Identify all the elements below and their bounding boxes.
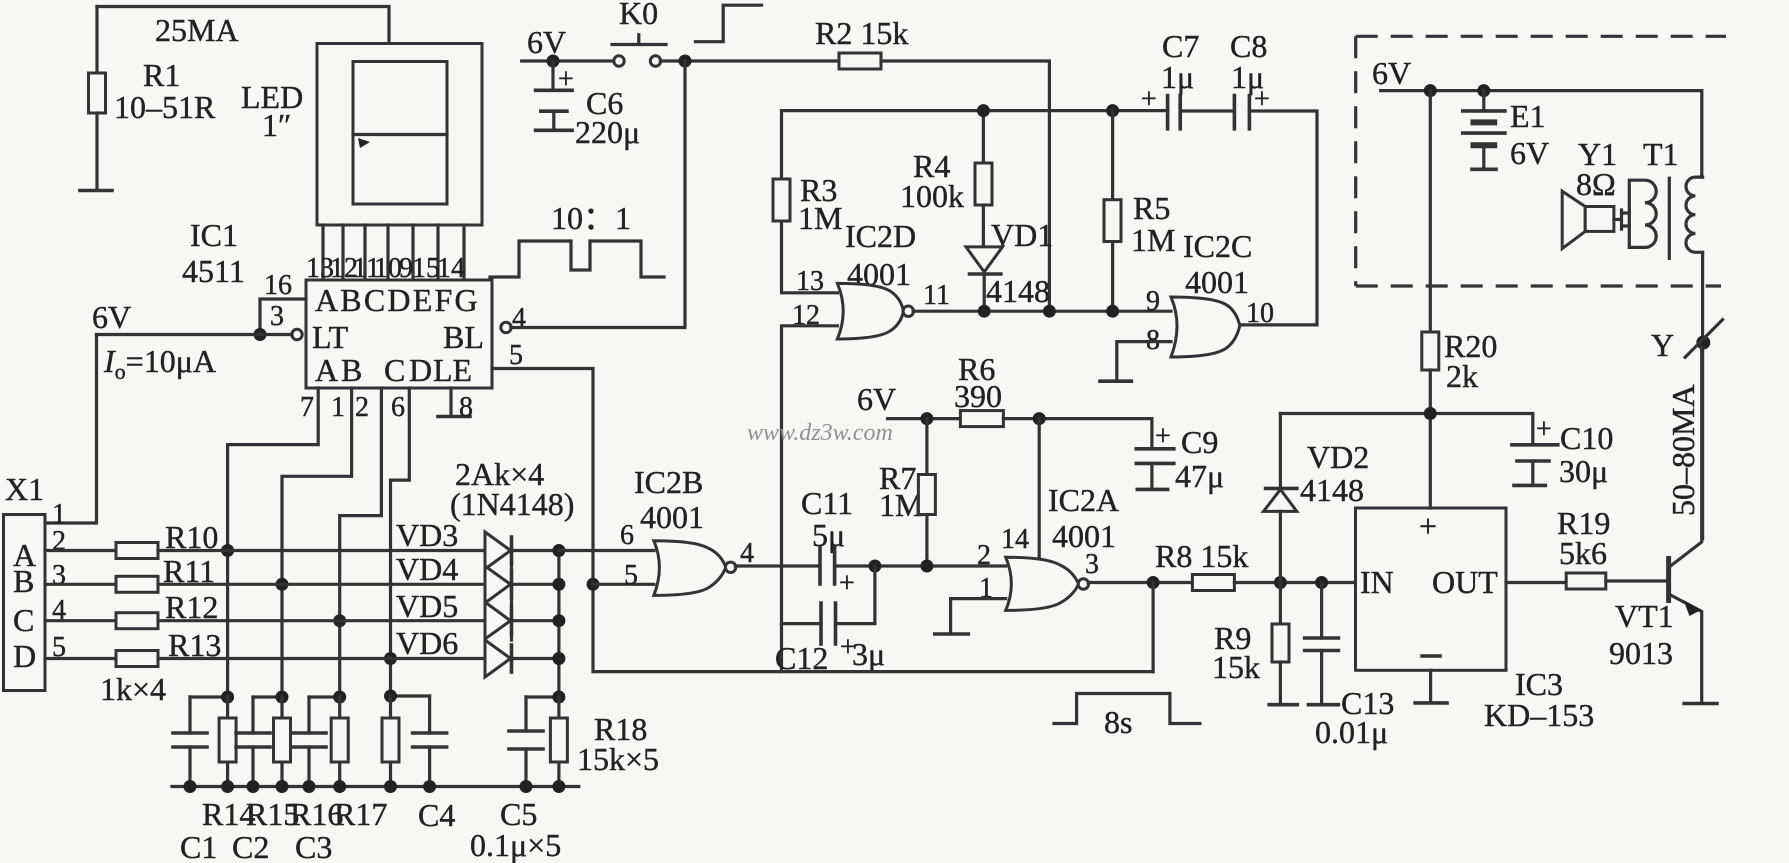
svg-text:4001: 4001: [640, 499, 704, 535]
diode VD3: [485, 532, 511, 569]
capacitor C12 plates: [821, 603, 836, 644]
wire 6V to K0: [522, 59, 615, 62]
IC1 pin 6 stub and wire to R13 net: [391, 388, 410, 696]
svg-text:9: 9: [1146, 286, 1160, 317]
svg-text:220μ: 220μ: [575, 114, 640, 150]
resistor R12: [116, 613, 158, 629]
junction C13 / IN line: [1315, 576, 1328, 589]
ground bar below C6: [536, 129, 573, 133]
svg-text:4: 4: [512, 303, 526, 334]
rail junction R17: [384, 780, 397, 793]
resistor R15: [280, 697, 283, 787]
wire output node down to feedback line: [1151, 583, 1154, 672]
svg-text:VT1: VT1: [1615, 598, 1674, 634]
svg-text:1M: 1M: [879, 487, 923, 523]
svg-text:6V: 6V: [1510, 135, 1549, 171]
rail junction R18: [552, 780, 565, 793]
transistor VT1 base bar: [1666, 556, 1671, 603]
transformer T1 primary winding: [1629, 180, 1656, 247]
svg-text:3: 3: [270, 301, 284, 332]
wire between C7 and C8: [1180, 109, 1234, 112]
junction pin16/6V: [254, 328, 267, 341]
wire row D to VD6: [158, 657, 485, 660]
node C3/R16 top: [309, 695, 340, 698]
svg-text:8: 8: [459, 392, 473, 423]
svg-text:C10: C10: [1560, 420, 1613, 456]
ground bar IC2A pin 1: [935, 632, 969, 636]
wire R7 top lead: [925, 419, 928, 475]
svg-text:10：1: 10：1: [551, 200, 631, 236]
svg-text:25MA: 25MA: [155, 12, 239, 48]
svg-text:C9: C9: [1181, 424, 1218, 460]
junction LE line / IC2B input5: [587, 578, 600, 591]
svg-text:1k×4: 1k×4: [100, 671, 166, 707]
ground bar below KD-153: [1415, 701, 1447, 705]
capacitor C3: [307, 697, 310, 787]
junction R7 / 6V rail: [920, 412, 933, 425]
rail junction C5: [520, 780, 533, 793]
switch contact Y dot: [1696, 336, 1710, 350]
svg-text:+: +: [1419, 508, 1437, 544]
wire VD2 node line to C10: [1280, 414, 1532, 445]
svg-text:LE: LE: [433, 352, 472, 388]
wire R20 branch from 6V through enclosure: [1429, 91, 1432, 332]
KD-153 ground stub: [1429, 670, 1432, 701]
junction bus/VD5: [552, 614, 565, 627]
svg-text:+: +: [839, 568, 855, 599]
svg-text:T1: T1: [1643, 136, 1679, 172]
wire pin 14 power branch: [1038, 419, 1041, 563]
ground bar below R9: [1269, 703, 1297, 707]
IC2A output bubble: [1078, 579, 1088, 589]
resistor R18: [557, 697, 560, 787]
wire secondary bottom down through Y contact: [1701, 252, 1704, 538]
waveform 10:1: [490, 241, 664, 277]
svg-text:50–80MA: 50–80MA: [1665, 384, 1701, 516]
resistor R19: [1566, 573, 1606, 589]
svg-text:11: 11: [923, 280, 950, 311]
connector X1 body: [4, 515, 46, 691]
svg-text:6: 6: [620, 520, 634, 551]
junction R7 / input2 line: [920, 560, 933, 573]
svg-text:VD1: VD1: [991, 217, 1053, 253]
svg-text:2: 2: [355, 392, 369, 423]
svg-text:VD2: VD2: [1307, 439, 1369, 475]
svg-text:9013: 9013: [1609, 635, 1673, 671]
switch K0 actuator bar: [612, 35, 666, 45]
wire R20 bottom lead: [1429, 370, 1432, 508]
capacitor C10 bottom lead: [1531, 461, 1534, 484]
svg-text:30μ: 30μ: [1559, 453, 1608, 489]
wire R2 to IC2C input branch: [881, 61, 1049, 311]
wire BL pin4 to K0 branch vertical: [511, 326, 684, 329]
svg-text:6V: 6V: [92, 299, 131, 335]
svg-text:www.dz3w.com: www.dz3w.com: [747, 420, 893, 446]
ground bar pin 8: [438, 415, 470, 419]
wire VD5 cathode to bus: [512, 619, 559, 622]
wire VD4 cathode to bus: [512, 583, 559, 586]
svg-text:R8 15k: R8 15k: [1155, 538, 1248, 574]
svg-text:VD4: VD4: [396, 551, 458, 587]
svg-text:VD6: VD6: [396, 625, 458, 661]
KD-153 minus mark: [1422, 654, 1440, 658]
battery E1 plates: [1463, 109, 1505, 113]
svg-text:4511: 4511: [182, 253, 245, 289]
svg-text:2: 2: [52, 526, 66, 557]
capacitor C1: [188, 697, 191, 787]
svg-text:VD5: VD5: [396, 588, 458, 624]
svg-text:100k: 100k: [900, 178, 964, 214]
svg-text:2k: 2k: [1446, 358, 1478, 394]
svg-text:R5: R5: [1133, 190, 1170, 226]
wire 6V rail to R6: [888, 417, 961, 420]
battery E1 bottom lead and end bar: [1482, 145, 1485, 168]
junction pin14 branch / 6V rail: [1033, 412, 1046, 425]
resistor R2: [839, 53, 881, 69]
svg-text:C4: C4: [418, 797, 455, 833]
capacitor C4: [428, 696, 431, 787]
svg-text:R17: R17: [334, 796, 387, 832]
LED display inner window: [353, 62, 447, 205]
junction R2 branch / line 11: [1043, 305, 1056, 318]
svg-text:BL: BL: [443, 319, 484, 355]
capacitor C9 plates: [1136, 449, 1174, 464]
svg-text:6V: 6V: [1372, 55, 1411, 91]
wire C13 bottom lead: [1320, 651, 1323, 704]
wire VD3 row to IC2B input 6: [559, 549, 654, 552]
junction K0 / BL branch: [679, 55, 692, 68]
svg-text:1M: 1M: [1131, 222, 1175, 258]
junction R20 / node line: [1424, 407, 1437, 420]
wire R3 branch down to IC2D pin13: [782, 111, 838, 293]
wire 6V vertical down to X1 pin1: [47, 335, 97, 524]
ground bar IC2C pin 8: [1100, 379, 1131, 383]
resistor R7: [918, 475, 935, 515]
junction bus/VD3: [552, 544, 565, 557]
junction bus/VD4: [552, 578, 565, 591]
junction R20 branch / 6V: [1424, 84, 1437, 97]
diode VD1: [966, 247, 1003, 272]
wire R6 to C9 corner: [1003, 419, 1152, 449]
svg-text:10: 10: [1246, 298, 1274, 329]
svg-text:1: 1: [331, 392, 345, 423]
emitter end bar: [1684, 702, 1717, 706]
svg-text:+: +: [1536, 414, 1552, 445]
wire row B to R11: [45, 583, 116, 586]
svg-text:IC1: IC1: [190, 217, 238, 253]
wire R7 bottom lead: [925, 515, 928, 567]
svg-text:5k6: 5k6: [1559, 535, 1607, 571]
dashed enclosure top: [1356, 35, 1726, 38]
svg-text:10–51R: 10–51R: [114, 89, 216, 125]
svg-text:IC2D: IC2D: [845, 218, 916, 254]
svg-text:0.1μ×5: 0.1μ×5: [470, 827, 561, 863]
RC bank common rail: [172, 785, 579, 788]
waveform 8s pulse: [1054, 694, 1200, 724]
junction E1 / 6V: [1477, 84, 1490, 97]
speaker Y1 terminals fork: [1614, 210, 1629, 229]
wire C13 top lead: [1320, 583, 1323, 639]
wire VD1 cathode to line 11: [983, 274, 986, 311]
junction VD1 / line 11: [978, 305, 991, 318]
svg-text:2: 2: [977, 540, 991, 571]
svg-text:Y: Y: [1651, 327, 1674, 363]
op-amp gate IC2B NOR: [654, 541, 726, 596]
pin 4 BL inverting circle: [501, 322, 511, 332]
IC1 pin 2 stub and wire to R12 net: [340, 388, 382, 697]
capacitor C13 plates: [1305, 638, 1339, 651]
diode VD5: [485, 602, 511, 639]
dashed enclosure bottom: [1356, 284, 1721, 287]
rail junction R16: [333, 780, 346, 793]
rail junction R14: [221, 780, 234, 793]
resistor R17: [389, 696, 392, 787]
svg-text:IC2C: IC2C: [1183, 228, 1252, 264]
wire row D to R13: [45, 657, 116, 660]
speaker Y1 body: [1585, 207, 1614, 232]
svg-text:ABCDEFG: ABCDEFG: [315, 282, 480, 318]
dashed package line through diode cathodes: [510, 564, 513, 645]
transformer T1 secondary winding: [1686, 177, 1703, 252]
svg-text:15k: 15k: [1212, 649, 1260, 685]
resistor R4: [975, 163, 992, 205]
transistor VT1 collector: [1669, 347, 1702, 568]
svg-text:C3: C3: [295, 829, 332, 863]
svg-text:15k×5: 15k×5: [577, 741, 659, 777]
waveform rising edge near K0: [695, 5, 761, 42]
capacitor C8 plates: [1234, 96, 1249, 129]
junction bus/VD6: [552, 652, 565, 665]
svg-text:8s: 8s: [1104, 704, 1132, 740]
junction 6V / C6: [547, 55, 560, 68]
svg-text:13: 13: [796, 266, 824, 297]
svg-text:VD3: VD3: [396, 517, 458, 553]
svg-text:E1: E1: [1510, 98, 1546, 134]
resistor R11: [116, 576, 158, 592]
svg-text:C: C: [384, 352, 405, 388]
junction pin6 / VD6 row: [384, 652, 397, 665]
resistor R16: [338, 697, 341, 787]
wire IC2C input 8 to ground: [1117, 342, 1171, 380]
rail junction C1: [184, 780, 197, 793]
svg-text:6V: 6V: [527, 24, 566, 60]
wire oscillator top rail R3/R4/C7: [782, 109, 1168, 112]
wire top feed from supply to LED anode: [97, 7, 389, 44]
node C2/R15 top: [253, 695, 282, 698]
svg-text:D: D: [409, 352, 432, 388]
rail junction R15: [276, 780, 289, 793]
junction R4 / top rail: [977, 104, 990, 117]
svg-text:C1: C1: [180, 829, 217, 863]
resistor R14: [226, 697, 229, 787]
wire row A to VD3: [158, 549, 485, 552]
svg-text:0.01μ: 0.01μ: [1315, 714, 1388, 750]
wire row C to R12: [45, 619, 116, 622]
resistor R5 leads: [1111, 111, 1114, 312]
wire R9 bottom lead: [1279, 662, 1282, 703]
svg-text:KD–153: KD–153: [1484, 697, 1594, 733]
svg-text:(1N4148): (1N4148): [450, 486, 574, 522]
IC1 4511 body: [306, 280, 492, 388]
svg-text:+: +: [1141, 84, 1157, 115]
ground bar below C13: [1309, 703, 1339, 707]
wire R9 top lead: [1279, 583, 1282, 625]
svg-text:4148: 4148: [986, 273, 1050, 309]
wire row A to R10: [45, 549, 116, 552]
resistor R20: [1422, 332, 1439, 370]
LED display outer body: [317, 44, 482, 226]
wire 6V rail in enclosure: [1381, 91, 1702, 178]
wire 6V to LT: [97, 333, 293, 336]
svg-text:R2 15k: R2 15k: [815, 15, 908, 51]
resistor R8: [1192, 575, 1234, 591]
wire IC2B output to C11: [735, 564, 820, 567]
dashed enclosure left: [1354, 36, 1357, 286]
wire LE pin5 to IC2B pin5 vertical: [492, 369, 593, 672]
pin 3 LT inverting circle: [292, 329, 302, 339]
capacitor C6 plates: [536, 90, 573, 111]
svg-text:3: 3: [52, 560, 66, 591]
wire C12 right lead up to node: [836, 566, 875, 624]
junction pin2 / R12 row: [333, 614, 346, 627]
wire R4 top lead: [982, 111, 985, 163]
capacitor C9 bottom lead: [1150, 463, 1153, 488]
LED display middle segment line: [353, 133, 447, 136]
wire IC2D pin12 input and vertical to C12/feedback: [782, 326, 838, 672]
wire row C to VD5: [158, 619, 485, 622]
svg-text:1M: 1M: [798, 200, 842, 236]
svg-text:4001: 4001: [1185, 264, 1249, 300]
capacitor C2: [251, 697, 254, 787]
svg-text:5μ: 5μ: [812, 517, 845, 553]
wire VD6 cathode to bus: [512, 657, 559, 660]
pin 16 wire from left edge to 6V: [260, 299, 306, 333]
capacitor C11 plates: [820, 548, 835, 584]
svg-text:390: 390: [954, 378, 1002, 414]
op-amp gate IC2D NOR: [837, 283, 903, 339]
capacitor C6 top lead: [551, 61, 554, 90]
wire IC2D output line 11 to IC2C input 9: [913, 310, 1171, 313]
junction VD2-R9 / IN line: [1274, 576, 1287, 589]
junction R5 / input 9 line: [1106, 305, 1119, 318]
switch K0 contact circles: [614, 56, 624, 66]
wire IC2A input 1 to ground: [951, 599, 1006, 633]
switch contact Y blade: [1685, 320, 1723, 358]
svg-text:4148: 4148: [1300, 472, 1364, 508]
wire C12 left lead from pin12 vertical: [782, 622, 822, 625]
node R17/C4 top: [391, 694, 430, 697]
svg-text:LT: LT: [312, 319, 349, 355]
svg-text:1μ: 1μ: [1161, 59, 1194, 95]
svg-text:A: A: [315, 352, 338, 388]
svg-text:14: 14: [1001, 524, 1029, 555]
diode VD4: [485, 566, 511, 603]
resistor R9: [1272, 624, 1289, 662]
capacitor C5: [524, 697, 527, 787]
resistor R10: [116, 543, 158, 559]
speaker Y1 horn: [1562, 191, 1585, 248]
svg-text:D: D: [13, 638, 36, 674]
transformer T1 core: [1668, 178, 1671, 258]
wire row B to VD4: [158, 583, 485, 586]
wire R1 top lead: [95, 7, 98, 74]
junction pin1 / R11 row: [276, 578, 289, 591]
svg-text:6V: 6V: [857, 381, 896, 417]
wire BL branch vertical: [683, 61, 686, 328]
IC2B output bubble: [725, 562, 735, 572]
ground bar below R1: [80, 189, 112, 193]
wire R8 to KD-153 IN: [1234, 581, 1355, 584]
IC2D output bubble: [903, 306, 913, 316]
junction C11/C12 node: [868, 560, 881, 573]
svg-text:1″: 1″: [262, 107, 291, 143]
LED display decimal mark: [358, 138, 370, 148]
op-amp gate IC2A NOR: [1006, 557, 1079, 610]
svg-text:5: 5: [509, 340, 523, 371]
battery E1 top lead: [1482, 91, 1485, 111]
op-amp gate IC2C NOR: [1171, 297, 1240, 357]
ground bar below C9: [1137, 488, 1167, 492]
junction R5/C7 node on top rail: [1106, 104, 1119, 117]
IC3 KD-153 body: [1356, 508, 1507, 670]
diode VD2 cathode bar: [1266, 487, 1297, 491]
wire IC2A output to R8: [1088, 581, 1192, 584]
svg-text:C2: C2: [232, 829, 269, 863]
wire K0 to R2: [660, 59, 839, 62]
svg-text:R1: R1: [143, 57, 180, 93]
wire VD2 anode to IN line: [1279, 511, 1282, 582]
svg-text:16: 16: [264, 270, 292, 301]
wire R1 bottom lead: [95, 113, 98, 189]
IC1 pin 8 stub: [449, 388, 452, 414]
junction pin7 / R10 row: [221, 544, 234, 557]
resistor R6: [960, 411, 1003, 427]
wire IC2B input 5: [593, 583, 654, 586]
LED pin wires to IC1: [323, 225, 464, 280]
node C5/R18 top: [526, 695, 559, 698]
capacitor C6 bottom lead: [552, 111, 555, 128]
diode VD2: [1264, 489, 1297, 511]
wire C8 to IC2C output loop: [1239, 111, 1317, 325]
wire VD2 top lead from R20 node line: [1279, 414, 1282, 489]
svg-text:IC2A: IC2A: [1048, 482, 1119, 518]
svg-text:IC2B: IC2B: [634, 464, 703, 500]
resistor R3: [773, 179, 790, 221]
svg-text:C11: C11: [801, 485, 853, 521]
IC1 pin 7 stub and wire to R10 net: [228, 388, 319, 697]
resistor R5: [1104, 200, 1121, 242]
svg-text:5: 5: [624, 560, 638, 591]
resistor R1: [89, 73, 106, 113]
wire VD3 cathode to bus: [512, 549, 559, 552]
wire KD-153 OUT to R19: [1506, 581, 1566, 584]
ground bar below C10: [1514, 484, 1545, 488]
svg-text:B: B: [341, 352, 362, 388]
rail junction C3: [303, 780, 316, 793]
diode VD6: [485, 640, 511, 677]
svg-text:IN: IN: [1360, 564, 1394, 600]
wire R4 to VD1: [982, 205, 985, 247]
svg-text:7: 7: [300, 392, 314, 423]
svg-text:8Ω: 8Ω: [1576, 166, 1616, 202]
svg-text:C: C: [13, 602, 34, 638]
node C1/R14 top: [190, 695, 228, 698]
junction output 3 node: [1147, 576, 1160, 589]
svg-text:K0: K0: [619, 0, 658, 31]
svg-text:3: 3: [1085, 549, 1099, 580]
transistor VT1 emitter with arrow: [1669, 594, 1702, 702]
svg-text:4001: 4001: [1052, 518, 1116, 554]
